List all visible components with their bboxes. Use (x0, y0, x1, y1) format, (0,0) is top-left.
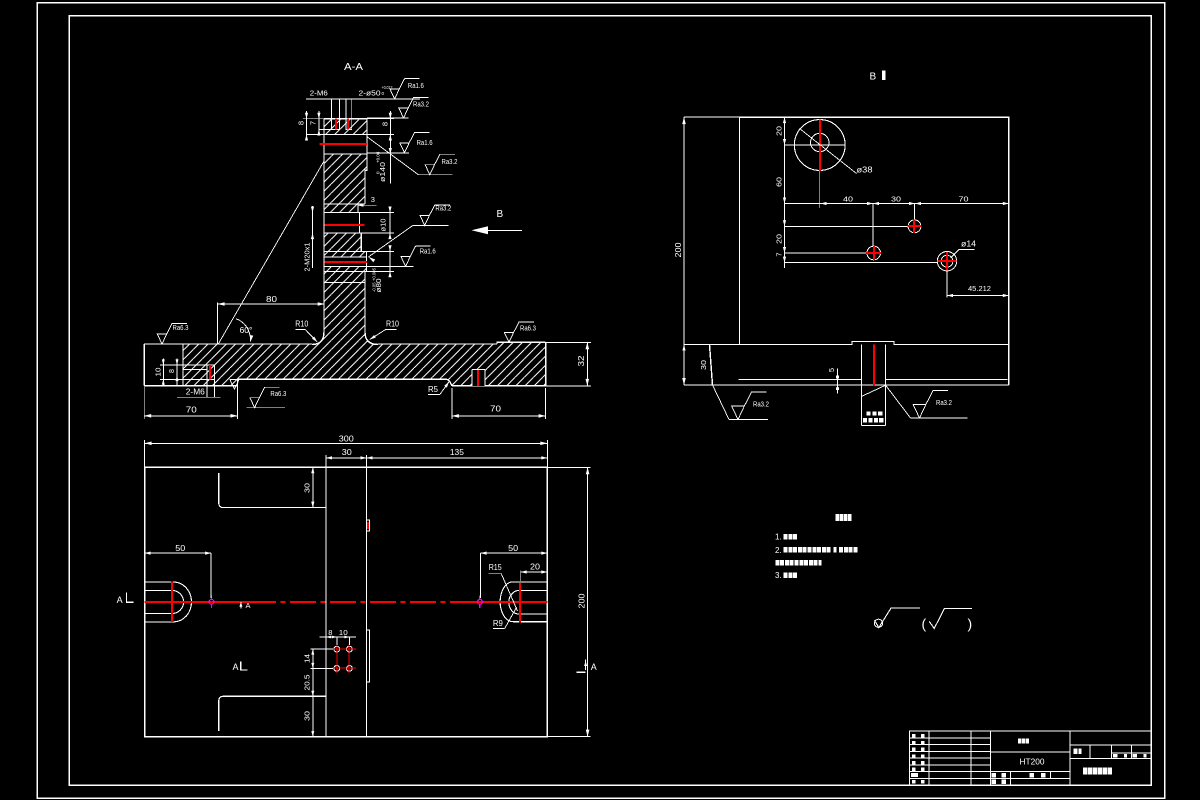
phi38 horizontal centerline (785, 144, 846, 146)
2-M20x1 dim line (312, 206, 314, 268)
tick at thread depth (319, 129, 332, 131)
45.212 dim line (947, 295, 1009, 297)
row line to phi14 (785, 262, 938, 264)
section marker A on centerline (240, 602, 242, 609)
hatch: column upper-mid (324, 170, 365, 204)
tongue right edge (885, 345, 887, 426)
svg-text:32: 32 (577, 355, 586, 367)
spigot bottom extension (367, 265, 414, 267)
svg-text:50: 50 (175, 544, 186, 553)
svg-text:80: 80 (266, 294, 277, 304)
svg-text:70: 70 (490, 404, 501, 414)
pad M6 hole end (214, 365, 216, 379)
extension line flange bottom left (307, 134, 325, 136)
B 200 dim extensions (684, 116, 740, 118)
svg-text:10: 10 (156, 367, 163, 376)
svg-text:2-M6: 2-M6 (186, 388, 206, 397)
hole c1 red cross (873, 246, 875, 260)
red dash-dot centerline (145, 601, 250, 603)
right slot red centerline (519, 583, 521, 623)
Ra1.6 symbol on callout line (390, 78, 420, 99)
svg-text:R9: R9 (493, 619, 504, 628)
M6 hole 2 outline (346, 119, 352, 130)
phi14 leader (951, 250, 975, 259)
title block left rows (910, 737, 991, 739)
stage mark tiny label (1074, 749, 1078, 754)
school name blobs (1083, 767, 1087, 774)
svg-text:A: A (246, 601, 251, 610)
B 30 dim extension (684, 344, 710, 346)
pad M6 minor end (206, 365, 208, 379)
svg-text:ø10: ø10 (379, 219, 388, 232)
left column tiny labels (912, 734, 916, 738)
title block right lines (1070, 744, 1151, 746)
column outline: flange top edge (324, 118, 367, 120)
roughness legend main symbol (874, 619, 882, 627)
svg-text:3.: 3. (775, 571, 782, 580)
column lower inner line (324, 282, 365, 284)
plan view outer rect (145, 467, 548, 736)
column outline: left edge (323, 119, 325, 332)
dim 8 line (pad) (176, 358, 178, 385)
dim 10 extensions (160, 364, 183, 366)
svg-text:ø38: ø38 (857, 166, 874, 175)
recess line right of tongue (886, 379, 1008, 381)
dim 3 line (358, 204, 377, 206)
svg-text:1.: 1. (775, 533, 782, 542)
hatch: base right lip (497, 342, 546, 344)
hatch: column lower (324, 271, 365, 344)
foot red thread (right) (477, 369, 479, 386)
svg-text:A: A (591, 662, 597, 672)
title block outer (910, 731, 1152, 785)
svg-text:10: 10 (339, 628, 348, 637)
hatch: base right foot (452, 379, 546, 386)
spigot top edge (324, 250, 367, 252)
dim 50 left (145, 552, 212, 554)
svg-text:50: 50 (508, 544, 519, 553)
cross wall left line (325, 467, 327, 736)
svg-text:30: 30 (303, 483, 312, 493)
dim stack line (14/20.5/30) (312, 649, 314, 737)
leader from bore corner to Ra3.2 (367, 137, 419, 175)
R5 fillet (446, 379, 452, 386)
section marker A bottom-right (585, 660, 587, 670)
dim 50 right (481, 552, 548, 554)
svg-text:60°: 60° (240, 326, 253, 335)
base bottom step left (237, 379, 239, 385)
dim 70 left: extensions (143, 387, 145, 419)
hatch: right fillet (365, 332, 378, 345)
column outline: right edge upper (365, 119, 367, 204)
svg-text:Ra6.3: Ra6.3 (173, 323, 189, 332)
base top edge right (378, 343, 497, 345)
base right edge (545, 342, 547, 386)
dim 32 extensions (546, 341, 591, 343)
spigot inner line lower (324, 265, 367, 267)
bore phi10 right edge (359, 213, 361, 234)
bore phi10 bottom (324, 232, 360, 234)
column right edge mid (360, 233, 362, 251)
Ra3.2 right (B) leader (886, 385, 911, 418)
base top edge left (144, 343, 312, 345)
svg-text:300: 300 (339, 434, 354, 444)
svg-text:HT200: HT200 (1020, 756, 1045, 766)
svg-text:2-M20x1: 2-M20x1 (303, 243, 312, 272)
Ra1.6 symbol (spigot bottom) (401, 246, 431, 267)
hatch: column mid (324, 233, 361, 251)
svg-text:Ra1.6: Ra1.6 (417, 138, 433, 147)
foot hole mask (472, 369, 485, 386)
Ra3.2 left (B) symbol (732, 392, 767, 420)
svg-text:B: B (870, 72, 877, 83)
svg-text:A-A: A-A (344, 61, 363, 73)
dim 32 line (586, 342, 588, 386)
weight/scale tiny labels (1113, 754, 1117, 758)
small triangle on base bottom (230, 379, 239, 389)
svg-text:(: ( (922, 616, 927, 632)
svg-text:7: 7 (309, 121, 318, 125)
left dim line (20/60/20/7) (784, 117, 786, 268)
M20 thread red line (325, 261, 367, 263)
svg-text:200: 200 (578, 593, 587, 609)
svg-text:40: 40 (843, 195, 853, 204)
phi80 dim line (389, 246, 391, 277)
40/30/70 dim row (785, 203, 1009, 205)
Ra3.2 symbol on flange top (399, 98, 429, 119)
svg-text:R10: R10 (295, 320, 308, 329)
note 2 line b (775, 560, 779, 565)
hatch: spigot upper sliver (324, 251, 367, 257)
svg-text:30: 30 (342, 448, 353, 457)
cross wall right line (366, 467, 368, 736)
hatch: left fillet (312, 332, 324, 345)
phi80 dim: extensions (367, 250, 395, 252)
base bottom center recess (238, 378, 446, 380)
hole c1 drop line (872, 204, 874, 247)
extension line flange top left (303, 118, 324, 120)
notes title (tech requirements) (836, 514, 840, 521)
hole group red grid horizontals (332, 648, 356, 650)
hatch: column band below bore (324, 154, 367, 170)
left slot inner U (145, 590, 184, 613)
spigot right edge (366, 251, 368, 271)
base bottom right foot (452, 385, 546, 387)
svg-text:Ra3.2: Ra3.2 (413, 99, 429, 108)
hatch: base left foot (183, 379, 238, 385)
phi10 dim: extensions (360, 212, 394, 214)
dim 300 (plan) (145, 442, 548, 444)
right slot inner U (509, 591, 547, 615)
column outline: bore bottom (324, 153, 367, 155)
svg-text:2-M6: 2-M6 (310, 89, 328, 98)
dim 70 right line (452, 415, 546, 417)
svg-text:8: 8 (328, 628, 332, 637)
Ra6.3 bottom symbol (247, 407, 285, 409)
45.212 extension (946, 271, 948, 298)
svg-text:30: 30 (891, 195, 901, 204)
phi38 center drop line (819, 171, 821, 208)
right fillet R10 (365, 332, 378, 345)
dim 20 right (521, 571, 548, 573)
dim 30 inner top (312, 467, 314, 507)
dim 80 line (218, 303, 325, 305)
svg-text:14: 14 (303, 654, 312, 663)
hole c2 drop line (914, 204, 916, 220)
dim 200 (plan) extensions (547, 466, 590, 468)
middle sub verticals (1010, 772, 1012, 786)
dim 80 extension (217, 303, 219, 345)
bore thread red line (320, 143, 367, 145)
svg-text:135: 135 (450, 448, 465, 457)
phi38 inner circle (811, 133, 829, 151)
svg-text:A: A (233, 662, 239, 672)
phi14 inner circle (941, 255, 953, 267)
red tick in upper box (367, 522, 369, 529)
magenta marker left (209, 599, 214, 604)
pad boundary line (182, 344, 184, 386)
svg-text:2.: 2. (775, 546, 782, 555)
magenta marker right (478, 599, 483, 604)
phi10 bore red centerline (325, 224, 365, 226)
left slot outer U (145, 582, 192, 622)
svg-text:30: 30 (699, 360, 708, 370)
small box marker lower (367, 630, 370, 682)
dim line 8 (left) (306, 111, 308, 136)
B view outer rect (740, 117, 1009, 385)
pad M6 thread red (209, 365, 211, 379)
svg-text:ø14: ø14 (961, 240, 977, 249)
Ra3.2 symbol (phi140 surface) (425, 154, 455, 175)
svg-text:5: 5 (827, 368, 836, 372)
phi38 leader (800, 129, 857, 174)
60 deg dimension arc (236, 319, 251, 342)
spigot inner line upper (324, 256, 367, 258)
spigot bottom step (324, 270, 367, 272)
svg-text:20.5: 20.5 (303, 675, 312, 691)
right slot outer U (500, 582, 547, 622)
Ra3.2 right (B) symbol (913, 390, 948, 418)
small box marker upper (367, 520, 370, 531)
right dim 8: extensions (367, 118, 394, 120)
B 200 dim line (683, 117, 685, 385)
dim 10 line (162, 358, 164, 385)
foot hole outline right (471, 369, 473, 386)
recess line left of tongue (739, 379, 862, 381)
Ra6.3 left-top symbol (157, 324, 187, 345)
right sub horizontal (1112, 752, 1152, 754)
leader from spigot to Ra3.2 (368, 256, 376, 263)
counterbore band bottom (324, 212, 360, 214)
60 deg rib slant line (218, 161, 324, 345)
Ra3.2 left (B) leader (713, 385, 730, 420)
hatch: top flange of column (324, 119, 367, 135)
counterbore step top line (324, 203, 365, 205)
base right lip step (497, 342, 546, 344)
svg-text:45.212: 45.212 (968, 284, 991, 293)
part name blob (1018, 739, 1021, 744)
svg-text:Ra3.2: Ra3.2 (753, 400, 769, 409)
bore bottom extension line (367, 152, 409, 154)
hole group circles (334, 646, 340, 652)
Ra3.2 symbol (spigot) (420, 205, 450, 226)
dim 200 (plan) line (587, 467, 589, 736)
bottom middle tiny labels (992, 773, 996, 778)
row line to c1 (785, 252, 867, 254)
hole c2 circle (908, 220, 921, 233)
tongue red line (873, 345, 875, 387)
pad M6 hole bottom (183, 378, 215, 380)
hatch: counterbore step band (324, 204, 358, 213)
dim 8/10 line (320, 636, 356, 638)
tongue left edge (860, 345, 862, 426)
svg-text:8: 8 (297, 121, 306, 125)
hole c1 circle (867, 246, 881, 260)
svg-text:R5: R5 (428, 385, 439, 394)
svg-text:Ra3.2: Ra3.2 (936, 398, 952, 407)
svg-text:30: 30 (303, 711, 312, 721)
Ra1.6 symbol on bore line (400, 132, 430, 153)
svg-text:Ra3.2: Ra3.2 (442, 157, 458, 166)
dim 70 left line (144, 415, 237, 417)
svg-text:+0.005: +0.005 (372, 267, 377, 281)
svg-text:B: B (497, 209, 504, 220)
hole group red grid verticals (336, 644, 338, 673)
svg-text:60: 60 (775, 177, 784, 187)
callout leader line 2-M6 / 2-phi50 (306, 98, 420, 100)
svg-text:Ra1.6: Ra1.6 (420, 247, 436, 256)
svg-text:20: 20 (530, 562, 541, 571)
tongue internal slant (861, 385, 885, 396)
svg-text:Ra1.6: Ra1.6 (408, 81, 424, 90)
dim 70 right extensions (451, 388, 453, 419)
2-M6 label extensions (206, 379, 208, 397)
base bottom left foot (144, 385, 237, 387)
column right edge lower (364, 271, 366, 332)
svg-text:7: 7 (775, 252, 784, 256)
svg-text:20: 20 (775, 234, 784, 244)
step band right edge (357, 204, 359, 213)
M6 thread 1 (red) (335, 119, 337, 130)
M6 thread 2 (red) (347, 119, 349, 130)
svg-text:Ra3.2: Ra3.2 (435, 204, 451, 213)
svg-text:+0.08: +0.08 (376, 151, 381, 163)
svg-text:R15: R15 (489, 563, 502, 572)
svg-text:R10: R10 (386, 320, 399, 329)
svg-text:0: 0 (382, 91, 385, 96)
left fillet R10 (312, 332, 324, 345)
dim line 7 (318, 111, 320, 132)
base left edge (143, 344, 145, 386)
bottom-left inner wall (219, 696, 326, 731)
svg-text:20: 20 (775, 126, 784, 136)
hole c2 red cross (913, 219, 915, 233)
phi10 dim line (389, 207, 391, 239)
svg-text:Ra6.3: Ra6.3 (270, 389, 286, 398)
hatch: base center (183, 344, 546, 379)
top-left inner wall (219, 473, 326, 508)
B view band top edge (710, 342, 1009, 345)
extensions for hole rows (311, 648, 333, 650)
right sub verticals (1089, 745, 1091, 758)
title block verticals (928, 731, 930, 785)
title block middle lines (991, 751, 1070, 753)
M6 hole 1 outline (332, 119, 340, 130)
phi14 red cross (946, 252, 948, 270)
extension lines from callout to holes (331, 99, 333, 119)
tongue chamfer text blobs (867, 412, 871, 416)
svg-text:): ) (968, 616, 973, 632)
pad M6 minor line (183, 368, 207, 370)
svg-text:70: 70 (186, 405, 197, 415)
svg-text:8: 8 (381, 122, 390, 126)
row line to c2 (785, 225, 908, 227)
phi14 outer circle (937, 252, 956, 271)
hatch: spigot lower sliver (324, 266, 367, 271)
svg-text:200: 200 (674, 242, 683, 258)
left slot red centerline (171, 582, 173, 623)
column outline: flange bottom / bore top (324, 134, 367, 136)
pad M6 hole top (183, 364, 215, 366)
phi38 circle (794, 120, 845, 171)
svg-text:A: A (117, 595, 123, 605)
dim 5 line (837, 368, 839, 393)
tongue bottom lines (861, 425, 885, 427)
svg-text:3: 3 (371, 195, 375, 204)
B view band bottom (713, 384, 1009, 386)
B view band left edge (710, 345, 713, 386)
svg-text:-0.05: -0.05 (372, 282, 377, 292)
Ra6.3 right-top symbol (504, 322, 534, 343)
svg-text:Ra6.3: Ra6.3 (520, 324, 536, 333)
svg-text:8: 8 (169, 369, 176, 373)
svg-text:2-ø50: 2-ø50 (359, 89, 381, 98)
flange top extension line (367, 117, 409, 119)
dim line 8 (right) (389, 111, 391, 184)
dim 30/135 row (326, 457, 547, 459)
phi38 red centerline (819, 119, 821, 171)
svg-text:70: 70 (959, 195, 969, 204)
